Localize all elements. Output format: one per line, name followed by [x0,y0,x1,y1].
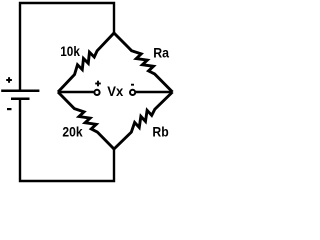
svg-text:Rb: Rb [152,124,168,140]
svg-text:Vx: Vx [107,83,123,99]
svg-text:20k: 20k [62,124,82,140]
svg-text:Ra: Ra [153,45,169,61]
svg-text:10k: 10k [60,43,80,59]
